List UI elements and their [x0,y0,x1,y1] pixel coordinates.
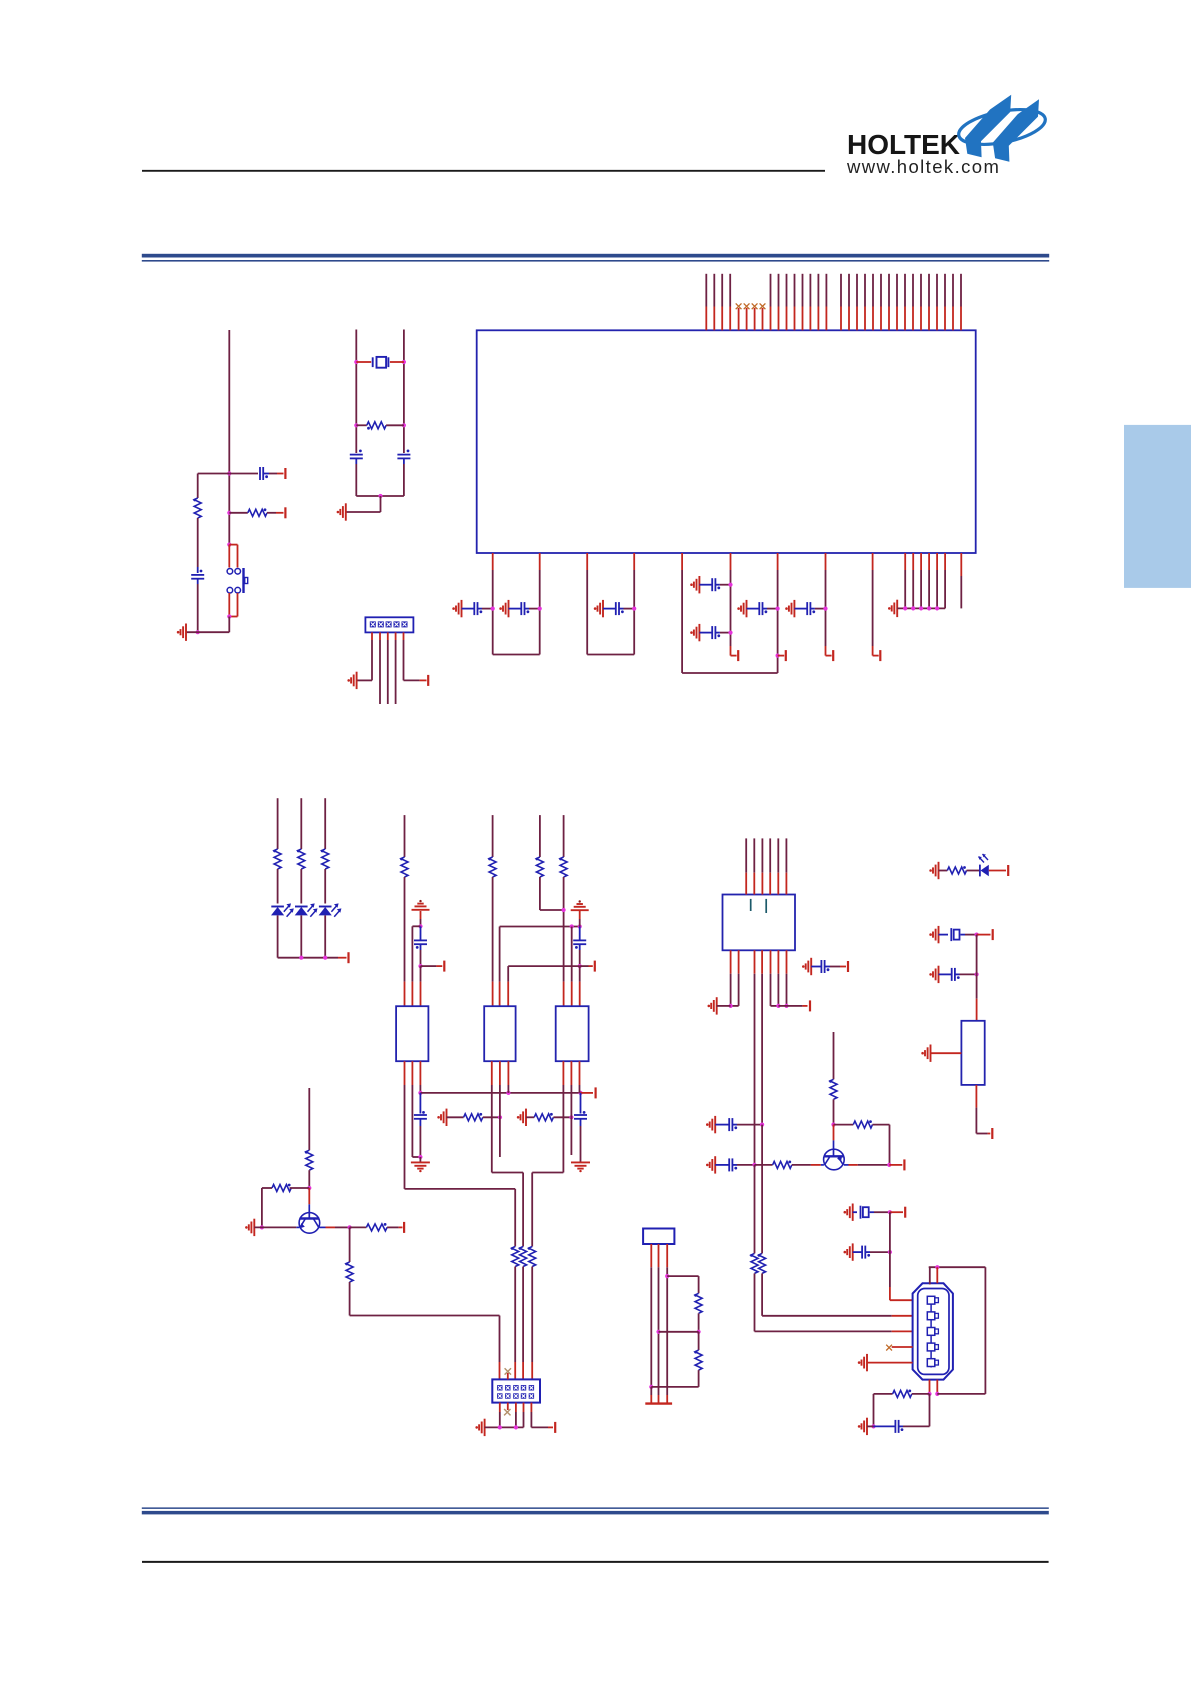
junction [927,606,931,610]
no-connect X top pin 3 [752,303,758,309]
USB contact 2 [927,1312,935,1320]
resistor R7 [560,857,567,877]
wire IC top pin bus D3 [856,274,858,307]
capacitor C11 [407,450,410,453]
wire [659,1331,699,1333]
wire [324,869,326,904]
wire J1 pin4 [395,632,397,640]
junction [196,630,200,634]
junction [578,924,582,928]
resistor R19 base [755,1164,773,1166]
wire LED bus [278,957,338,959]
wire IC top pin bus A1 [705,274,707,307]
wire IC bottom pin bus 14 [936,553,938,570]
power stub P8 [825,646,827,656]
junction [569,1115,573,1119]
ground G21 [806,958,812,975]
wire [650,1395,652,1404]
wire [936,1267,938,1283]
wire T1 pin6 [419,1061,421,1085]
wire IC top pin bus C5 [802,274,804,307]
ground G13 [571,904,589,910]
wire [514,1267,516,1363]
junction [578,1091,582,1095]
junction [831,1123,835,1127]
capacitor C18 [715,1124,729,1126]
wire net loop bottom 2 [587,654,634,656]
ground G18 [249,1219,255,1236]
wire [873,1394,875,1427]
wire IC top pin bus A2 [713,274,715,307]
wire [579,911,581,919]
junction [418,1091,422,1095]
wire IC top pin bus D15 [952,274,954,307]
wire IC top pin bus C7 [817,274,819,307]
capacitor C17 [715,1164,729,1166]
resistor R13 [306,1150,313,1170]
wire net loop bottom 3 [682,672,778,674]
wire [929,1394,931,1427]
wire J1 pin5 [403,632,405,640]
capacitor C6 [747,608,760,610]
wire USB shield pin1 [929,1380,931,1394]
capacitor C7 [794,608,807,610]
wire [867,1425,874,1427]
wire [197,518,199,567]
wire [975,1085,977,1108]
wire J2 pin8 [515,1403,517,1412]
footer rule line [142,1561,1049,1563]
junction [760,1123,764,1127]
wire J3 pin b1 [730,950,732,973]
junction [578,964,582,968]
Holtek logo mark left bolt [965,95,1011,158]
wire to USB pin3 [754,1165,756,1254]
wire J3 top pin 5 [777,838,779,872]
wire J3 top pin 6 [785,838,787,872]
ground G24 [847,1204,853,1221]
wire shell loop [937,1393,985,1395]
power stub [399,1226,403,1228]
wire [326,1226,336,1228]
wire J3 top pin 1 [745,838,747,872]
resistor R18 feedback [834,1124,854,1126]
capacitor C16 [811,966,821,968]
junction [728,631,732,635]
wire J3 pin b3 [754,950,756,973]
wire IC top pin bus D2 [848,274,850,307]
ground G14 [411,1162,430,1168]
junction [378,494,382,498]
wire IC bottom pin 9 [872,553,874,570]
wire col R6 [539,815,541,857]
wire IC bottom pin 3 [586,553,588,570]
wire [404,877,406,982]
wire IC top pin bus D8 [896,274,898,307]
junction [784,1004,788,1008]
wire T2 pin4 [491,1061,493,1085]
no-connect X USB pin4 [886,1345,892,1351]
connector J2 keypad header [492,1379,540,1402]
wire [531,1267,533,1363]
junction [348,1225,352,1229]
capacitor C1 [462,608,475,610]
junction [656,1330,660,1334]
no-connect X [505,1368,511,1374]
no-connect X top pin 1 [736,303,742,309]
junction [538,607,542,611]
wire [698,1370,700,1387]
wire xtal bottom [356,495,404,497]
wire IC bottom pin 4 [633,553,635,570]
junction [307,1186,311,1190]
wire T3 pin4 [562,1061,564,1085]
junction [697,1330,701,1334]
transistor Q2 [833,1125,835,1141]
wire USB shell top [929,1267,931,1284]
wire J3 top pin 3 [761,838,763,872]
junction [888,1210,892,1214]
resistor R15 [350,1226,367,1228]
wire IC top pin bus D14 [944,274,946,307]
ground G17 [571,1162,590,1168]
wire J3 top pin 4 [769,838,771,872]
resistor R_led3 [322,849,329,869]
capacitor C13 [579,927,581,941]
junction [935,1265,939,1269]
capacitor C2 [509,608,522,610]
connector J3 8-pin [723,895,796,951]
wire col R7 [563,815,565,857]
junction [927,1392,931,1396]
power stub [778,1005,786,1007]
wire [308,1170,310,1188]
junction [649,1385,653,1389]
junction [919,606,923,610]
ground G12 [412,904,430,910]
resistor R21 [759,1253,766,1273]
wire IC top pin bus D1 [840,274,842,307]
LED D3 [319,906,332,908]
ground G9 [181,624,187,641]
wire IC bottom pin 6 [730,553,732,570]
wire IC top pin bus D11 [920,274,922,307]
wire IC bottom pin 16 [960,553,962,576]
USB contact 4 [927,1343,935,1351]
wire [412,925,420,927]
USB contact 3 [927,1328,935,1336]
ground G16 [521,1109,527,1126]
ground G6 [741,600,747,617]
wire [571,927,573,982]
wire [300,915,302,957]
ground G19 [479,1419,485,1436]
wire [563,877,565,982]
ground G5 [694,624,700,641]
wire J3 pin b7 [786,950,788,973]
wire T2 pin6 [507,1061,509,1085]
power stub [890,1211,903,1213]
wire J2 pin10 [530,1403,532,1412]
wire IC top pin bus C4 [794,274,796,307]
ground G28 [933,862,939,879]
junction [498,1425,502,1429]
wire IC top pin bus C2 [778,274,780,307]
ground G25 [847,1243,853,1260]
ground G22 [710,1156,716,1173]
junction [506,1091,510,1095]
ground G29 [933,926,939,943]
wire T2 pin5 [499,1061,501,1085]
resistor R22 [874,1393,893,1395]
wire [833,1099,835,1124]
capacitor C21 [874,1425,896,1427]
wire col R4 [404,815,406,857]
wire [261,1188,263,1227]
wire [419,1157,421,1162]
wire [717,1005,731,1007]
wire IC top pin bus D13 [936,274,938,307]
wire [355,458,357,464]
switch SW1 tact button [229,544,237,546]
top navy double rule [142,254,1049,258]
wire IC top pin bus C3 [786,274,788,307]
wire col R5 [492,815,494,857]
ground G1 [456,600,462,617]
resistor R25 [698,1332,700,1350]
wire [254,1226,296,1228]
wire IC bottom pin 2 [539,553,541,570]
wire [492,877,494,982]
wire IC top pin bus D4 [864,274,866,307]
capacitor C19 box [853,1211,857,1213]
power stub P7 [778,655,785,657]
power stub [420,679,427,681]
junction [227,543,231,547]
wire keypad feed [349,1282,351,1316]
wire IC top pin bus D12 [928,274,930,307]
power stub [277,473,284,475]
ground G10 [340,503,346,520]
capacitor C22 box [939,934,949,936]
junction [227,471,231,475]
wire IC top pin bus D5 [872,274,874,307]
wire IC top pin bus D9 [904,274,906,307]
capacitor C9 [191,575,204,579]
wire J5 pin2 [658,1244,660,1267]
capacitor C20 [853,1251,862,1253]
wire USB vbus [889,1212,891,1287]
wire IC top pin bus D16 [960,274,962,307]
wire [300,869,302,904]
junction [227,614,231,618]
wire [667,1275,698,1277]
wire [380,496,382,512]
power stub [988,1133,991,1135]
wire [931,1052,962,1054]
wire IC top pin bus D7 [888,274,890,307]
connector J4 USB-A receptacle [913,1283,953,1379]
junction [911,606,915,610]
wire [522,1267,524,1363]
junction [823,607,827,611]
wire [277,869,279,904]
capacitor C4 [699,584,712,586]
wire [403,458,405,464]
junction [776,607,780,611]
junction [752,1163,756,1167]
capacitor C8 [229,473,258,475]
resonator X1 [961,1021,984,1085]
junction [227,511,231,515]
junction [776,654,780,658]
chassis bar [645,1402,672,1404]
wire [349,1227,351,1262]
junction [299,956,303,960]
header rule line [142,170,825,172]
junction [903,606,907,610]
connector J1 5-pin header [365,617,413,632]
LED D2 [295,906,308,908]
wire emitter [849,1164,858,1166]
crystal Y1 [356,361,371,363]
ground G31 [925,1045,931,1062]
junction [260,1225,264,1229]
junction [728,583,732,587]
side tab [1124,425,1191,588]
wire IC top pin bus A4 [729,274,731,307]
junction [402,423,406,427]
ground G27 [862,1418,868,1435]
junction [418,924,422,928]
power stub P9 [872,646,874,656]
IC U1 main MCU body [477,330,976,553]
capacitor C3 [603,608,616,610]
wire [580,1157,582,1162]
junction [632,607,636,611]
power stub [977,934,991,936]
wire Q1 collector net [308,1088,310,1150]
wire LED branch 1 [277,798,279,849]
ground G15 [441,1109,447,1126]
wire J3 pin b6 [777,950,779,973]
wire [324,915,326,957]
wire T1 pin5 [411,1061,413,1085]
transistor Q1 [308,1188,310,1204]
resistor R11 [520,1247,527,1267]
bottom navy double rule [142,1507,1049,1509]
resistor R12 [529,1247,536,1267]
power stub [276,512,284,514]
ground G4 [694,576,700,593]
wire [989,870,1006,872]
junction [418,1155,422,1159]
wire IC top pin bus D10 [912,274,914,307]
wire IC bottom pin bus 10 [904,553,906,570]
junction [935,1392,939,1396]
wire reset net vertical [228,330,230,545]
wire xtal left [355,330,357,454]
resistor R_led1 [274,849,281,869]
wire IC top pin bus C1 [770,274,772,307]
USB contact 1 [927,1296,935,1304]
wire IC bottom pin 1 [492,553,494,570]
wire net loop bottom 1 [493,654,540,656]
wire IC top pin bus C8 [825,274,827,307]
junction [888,1250,892,1254]
wire IC bottom pin 7 [777,553,779,570]
wire J1 pin3 [387,632,389,640]
junction [514,1425,518,1429]
wire [420,911,422,919]
power stub [580,965,589,967]
wire IC top pin bus C6 [809,274,811,307]
power stub [338,957,347,959]
resistor R20 [751,1253,758,1273]
wire ground rail [485,1426,524,1428]
ground G7 [789,600,795,617]
power stub [889,1164,902,1166]
junction [935,606,939,610]
junction [975,972,979,976]
junction [418,964,422,968]
wire LED branch 3 [324,798,326,849]
resistor R8 [447,1116,464,1118]
power stub [548,1426,553,1428]
no-connect X [507,1403,509,1410]
wire T1 pin4 [404,1061,406,1085]
resistor R16 [346,1262,353,1282]
wire J3 pin b5 [770,950,772,973]
capacitor C23 [939,973,952,975]
wire low bus [508,965,580,967]
junction [354,423,358,427]
wire branch left [198,473,230,475]
junction [323,956,327,960]
resistor R9 [526,1116,534,1118]
wire T3 pin6 [579,1061,581,1085]
resistor R6 [536,857,543,877]
ground G23 [710,1116,716,1133]
wire [976,935,978,999]
junction [975,933,979,937]
wire Q2 collector net [833,1032,835,1079]
wire IC bottom pin bus 12 [920,553,922,570]
capacitor C12 [420,926,422,940]
wire J5 pin1 [650,1244,652,1267]
power stub [421,965,437,967]
ground G8 [892,600,898,617]
wire [277,915,279,957]
LED D1 [271,906,284,908]
transistor block T1 [396,1006,428,1061]
junction [562,908,566,912]
ground G30 [933,966,939,983]
capacitor C15 [580,1093,582,1114]
wire J3 top pin 2 [753,838,755,872]
Holtek logo mark right bolt [993,99,1039,162]
power stub P6 [730,646,732,656]
wire IC top pin bus D6 [880,274,882,307]
ground G26 USB pin5 [862,1354,868,1371]
wire [698,1313,700,1332]
capacitor C14 [419,1093,421,1114]
wire LED branch 2 [300,798,302,849]
ground G3 [598,600,604,617]
transistor block T3 [556,1006,589,1061]
resistor R4 [401,857,408,877]
wire to USB pin2 [761,1125,763,1254]
